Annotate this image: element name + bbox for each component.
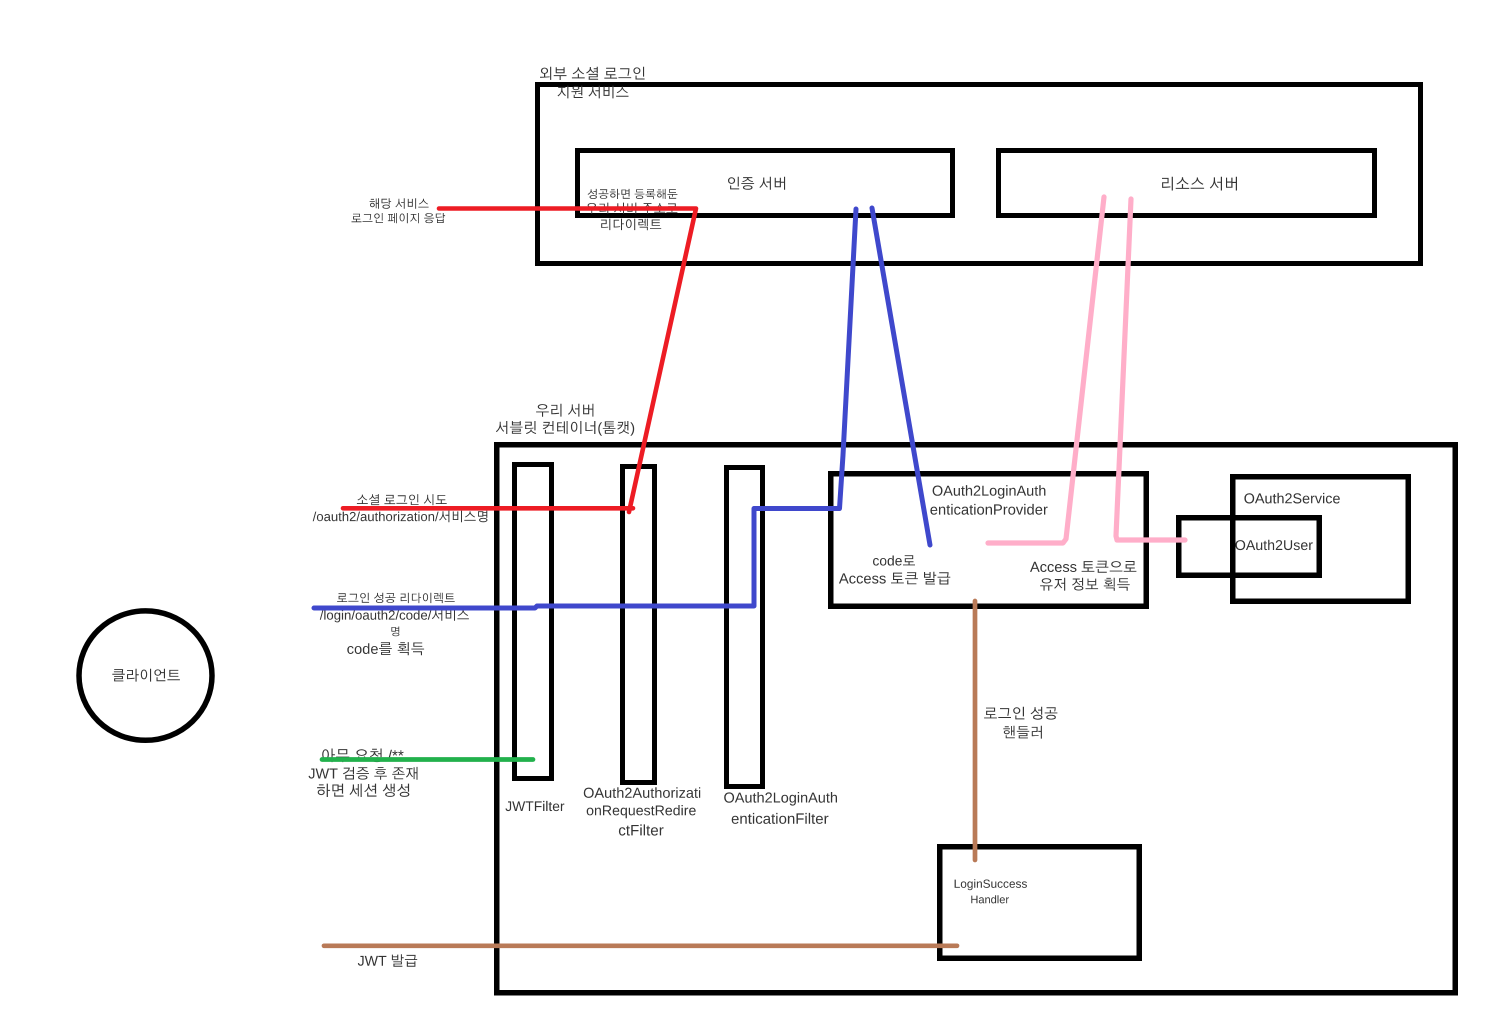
label: 리소스 서버 [1162,177,1237,191]
wire: brown JWT issue (LoginSuccessHandler -> client) [324,943,957,948]
label: 아무 요청 /** [322,749,403,763]
box: OAuth2LoginAuthenticationFilter bar [727,468,763,787]
label: 리다이렉트 [601,219,661,231]
wire: pink user-info fetch (resource server -> OAuth2User) [1116,199,1185,540]
label: 해당 서비스 [370,198,429,209]
label: 인증 서버 [728,177,785,190]
box: OAuth2AuthorizationRequestRedirectFilter bar [623,467,655,783]
label: enticationFilter [732,813,829,824]
label: 로그인 페이지 응답 [352,213,446,223]
box: resource server (리소스 서버) [999,151,1375,216]
label: 소셜 로그인 시도 [357,494,447,505]
label: 우리 서버 [536,404,593,417]
box: OAuth2Service [1233,477,1409,602]
label: 로그인 성공 리다이렉트 [337,593,455,603]
wire: pink access-token request (provider -> resource server) [988,197,1104,543]
wire: green any request /** [322,757,533,762]
label: enticationProvider [930,504,1047,515]
label: code로 [873,555,915,565]
box: LoginSuccessHandler [940,847,1140,959]
label: Access 토큰으로 [1030,561,1136,573]
label: 로그인 성공 [984,707,1057,720]
wire: blue code to provider (auth server -> OAuth2LoginAuthenticationProvider) [872,208,930,545]
label: JWT 발급 [358,954,417,966]
label: OAuth2LoginAuth (provider) [933,485,1046,499]
label: 외부 소셜 로그인 [540,67,645,80]
label: 핸들러 [1003,726,1042,739]
circle: client (클라이언트) [79,611,212,740]
label: 지원 서비스 [558,86,629,99]
label: onRequestRedire [587,805,696,818]
label: LoginSuccess [955,879,1027,890]
box: our server servlet container (outer bottom container) [497,445,1456,993]
wire: red login attempt request horizontal (client -> OAuth2AuthorizationRequestRedirectFilter) [343,506,633,511]
label: /login/oauth2/code/서비스 [320,609,469,622]
wire: brown login success handler call (provider -> LoginSuccessHandler) [973,601,978,860]
label: OAuth2Authorizati [584,787,700,798]
label: 우리 서버 주소로 [586,203,677,214]
label: 유저 정보 획득 [1040,578,1130,591]
label: OAuth2Service [1244,493,1339,504]
label: 성공하면 등록해둔 [588,189,678,199]
label: 명 [391,627,399,637]
label: Access 토큰 발급 [839,572,950,585]
box: external social login provider service (outer top container) [538,85,1421,264]
label: /oauth2/authorization/서비스명 [313,511,488,523]
label: 클라이언트 [112,669,180,682]
box: JWTFilter bar [515,465,552,779]
label: JWT 검증 후 존재 [309,767,418,780]
label: JWTFilter [505,801,564,811]
label: Handler [971,895,1009,903]
box: auth server (인증 서버) [578,151,953,216]
label: OAuth2LoginAuth (filter) [724,792,837,806]
box: OAuth2LoginAuthenticationProvider [831,474,1147,607]
label: ctFilter [619,824,664,835]
label: 하면 세션 생성 [317,784,409,797]
box: OAuth2User [1179,518,1320,576]
label: code를 획득 [347,642,424,655]
label: 서블릿 컨테이너(톰캣) [496,421,634,436]
label: OAuth2User [1235,540,1312,550]
wire: blue login success redirect (client -> filters -> auth server) [314,209,856,608]
wire: red login-page response, top segment and diagonal (auth server -> our server) [439,209,696,513]
